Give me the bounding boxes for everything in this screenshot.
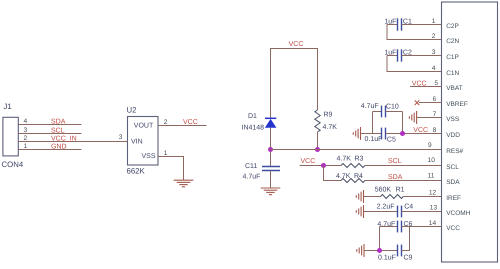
ground C11 bbox=[261, 188, 281, 195]
svg-text:VCC: VCC bbox=[446, 225, 460, 232]
no-connect X VBREF bbox=[415, 100, 420, 105]
svg-text:VSS: VSS bbox=[446, 116, 460, 123]
svg-text:R3: R3 bbox=[355, 155, 364, 162]
ground R1 bbox=[356, 190, 363, 203]
wire VCC_IN to U2 bbox=[18, 141, 127, 143]
svg-text:0.1uF: 0.1uF bbox=[365, 136, 383, 143]
wire SCL stub bbox=[18, 133, 81, 135]
svg-text:U2: U2 bbox=[127, 106, 137, 115]
svg-text:C9: C9 bbox=[404, 255, 413, 262]
svg-text:CON4: CON4 bbox=[2, 160, 24, 169]
ground C9 bbox=[357, 244, 364, 257]
svg-text:4: 4 bbox=[432, 65, 436, 72]
ground VSS bbox=[409, 111, 416, 124]
wire C10 left down bbox=[372, 112, 374, 134]
svg-text:14: 14 bbox=[429, 220, 437, 227]
svg-text:VCC: VCC bbox=[301, 158, 316, 165]
svg-text:SDA: SDA bbox=[388, 174, 403, 181]
wire R3 to pin10 bbox=[365, 165, 442, 167]
svg-text:IN4148: IN4148 bbox=[242, 124, 265, 131]
svg-text:J1: J1 bbox=[4, 102, 12, 111]
svg-text:D1: D1 bbox=[248, 113, 257, 120]
svg-text:VCC_IN: VCC_IN bbox=[51, 135, 77, 142]
wire VBAT bbox=[410, 86, 442, 88]
wire C11 to ground bbox=[270, 171, 272, 189]
wire R9 down bbox=[317, 132, 319, 150]
svg-text:VCC: VCC bbox=[183, 119, 198, 126]
svg-text:10: 10 bbox=[428, 157, 436, 164]
svg-text:VDD: VDD bbox=[446, 132, 460, 139]
svg-text:VCC: VCC bbox=[289, 41, 304, 48]
wire VSS down bbox=[158, 157, 184, 181]
svg-text:662K: 662K bbox=[127, 167, 146, 176]
svg-text:VBREF: VBREF bbox=[446, 101, 468, 108]
svg-text:C2P: C2P bbox=[446, 23, 459, 30]
node junction C9 bbox=[377, 248, 382, 253]
svg-text:2.2uF: 2.2uF bbox=[377, 204, 395, 211]
svg-text:VBAT: VBAT bbox=[446, 85, 463, 92]
svg-text:C2N: C2N bbox=[446, 38, 459, 45]
svg-text:SDA: SDA bbox=[446, 179, 460, 186]
svg-text:VCC: VCC bbox=[413, 127, 428, 134]
svg-text:4.7uF: 4.7uF bbox=[361, 103, 379, 110]
svg-text:C1N: C1N bbox=[446, 70, 459, 77]
svg-text:4.7uF: 4.7uF bbox=[243, 174, 261, 181]
svg-text:13: 13 bbox=[430, 205, 438, 212]
svg-text:1: 1 bbox=[432, 18, 436, 25]
wire C2 loop bbox=[387, 56, 442, 72]
wire VSS pin7 bbox=[417, 117, 442, 119]
ground U2 bbox=[174, 180, 194, 187]
svg-text:R1: R1 bbox=[396, 187, 405, 194]
wire C10 right down bbox=[402, 112, 404, 134]
svg-text:560K: 560K bbox=[375, 187, 392, 194]
ground C5 bbox=[353, 127, 360, 140]
svg-text:8: 8 bbox=[433, 127, 437, 134]
wire D1 to junction bbox=[270, 128, 272, 167]
wire VCC rail bbox=[271, 49, 318, 119]
svg-text:RES#: RES# bbox=[446, 148, 463, 155]
svg-text:6: 6 bbox=[433, 96, 437, 103]
wire C6 left down bbox=[379, 227, 381, 251]
svg-text:4.7K: 4.7K bbox=[337, 155, 352, 162]
svg-text:C4: C4 bbox=[404, 204, 413, 211]
svg-text:3: 3 bbox=[119, 134, 123, 141]
wire down to R4 bbox=[324, 166, 342, 181]
wire SDA stub bbox=[18, 124, 81, 126]
wire R4 to pin11 bbox=[365, 180, 442, 182]
node junction VDD bbox=[400, 131, 405, 136]
svg-text:C11: C11 bbox=[245, 163, 257, 170]
svg-text:SDA: SDA bbox=[51, 118, 66, 125]
svg-text:IREF: IREF bbox=[446, 195, 461, 202]
wire VBREF bbox=[419, 102, 442, 104]
svg-text:0.1uF: 0.1uF bbox=[378, 255, 396, 262]
ground C4 bbox=[356, 205, 363, 218]
wire C9 up to pin14 bbox=[402, 227, 410, 251]
svg-text:SCL: SCL bbox=[51, 127, 65, 134]
node junction pullup bbox=[321, 163, 326, 168]
IC U1 body bbox=[442, 2, 498, 262]
svg-text:7: 7 bbox=[433, 111, 437, 118]
svg-text:11: 11 bbox=[428, 173, 435, 180]
wire C1 loop bbox=[387, 25, 442, 40]
svg-text:C5: C5 bbox=[387, 136, 396, 143]
svg-text:12: 12 bbox=[429, 189, 437, 196]
wire VCC to R3 bbox=[300, 165, 342, 167]
svg-text:VSS: VSS bbox=[142, 153, 156, 160]
svg-text:5: 5 bbox=[435, 80, 439, 87]
svg-text:9: 9 bbox=[428, 142, 432, 149]
wire ground to C9 bbox=[364, 250, 398, 252]
svg-text:C1P: C1P bbox=[446, 54, 459, 61]
svg-text:R9: R9 bbox=[324, 112, 333, 119]
svg-text:2: 2 bbox=[432, 33, 436, 40]
svg-text:GND: GND bbox=[51, 143, 67, 150]
wire rail to pin 9 bbox=[271, 149, 443, 151]
wire GND stub bbox=[18, 149, 81, 151]
svg-text:C10: C10 bbox=[386, 103, 399, 110]
svg-text:SCL: SCL bbox=[388, 158, 402, 165]
svg-text:3: 3 bbox=[432, 49, 436, 56]
wire VOUT to VCC bbox=[158, 125, 207, 127]
svg-text:VCOMH: VCOMH bbox=[446, 210, 471, 217]
svg-text:SCL: SCL bbox=[446, 164, 459, 171]
node junction R9 bbox=[315, 147, 320, 152]
svg-text:VOUT: VOUT bbox=[134, 122, 154, 129]
node junction D1 bbox=[268, 147, 273, 152]
svg-text:VIN: VIN bbox=[131, 139, 143, 146]
svg-text:4.7K: 4.7K bbox=[323, 124, 338, 131]
